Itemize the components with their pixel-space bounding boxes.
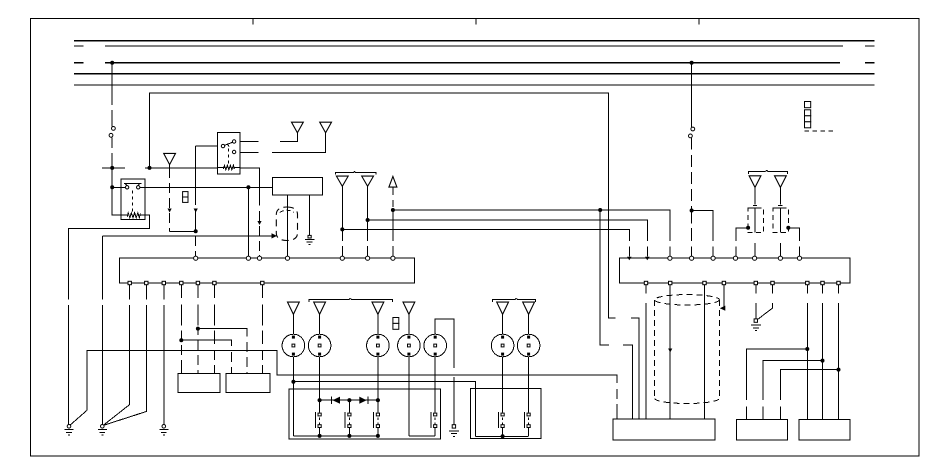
node junction (248.4,187.3) xyxy=(246,185,250,189)
node junction (149.5,168) xyxy=(148,166,152,170)
wire bus B1 xyxy=(74,40,875,42)
wire R1 output to ECU xyxy=(140,186,273,188)
wire bus B3 xyxy=(74,62,875,64)
wire bus B2 xyxy=(74,45,875,47)
wire R2 coil out right with drop to bar1 xyxy=(240,168,260,257)
wire drop to bar1 pin2 xyxy=(247,187,249,256)
pin J2-t3 xyxy=(668,256,672,260)
node (600.2,210) xyxy=(598,208,602,212)
wire relay2 left pin horizontal xyxy=(196,145,218,147)
switch SW7 xyxy=(524,412,530,436)
arrow marker on 670.2 xyxy=(668,349,672,353)
node (319.6,400.2) xyxy=(318,398,322,402)
wire T6 stem xyxy=(502,314,504,334)
pin J2-b4 xyxy=(722,281,725,284)
wire drop J2-b2 through cylinder xyxy=(669,285,671,419)
wire Td stem to bar1 xyxy=(341,186,343,256)
wire R1 contact1 lead xyxy=(112,186,125,188)
control unit U1 xyxy=(273,178,323,196)
node (367.6,220) xyxy=(366,218,370,222)
switch SW6 xyxy=(498,412,504,436)
switch SW3 xyxy=(374,400,380,436)
wire tap c1 to pin xyxy=(736,228,748,256)
wire drop J2-b6 slant to ground Gb xyxy=(758,285,773,320)
wire inner top rail xyxy=(150,93,640,419)
pin J2-b8 xyxy=(821,281,824,284)
pin J2-t5 xyxy=(711,256,715,260)
wire T2 stem xyxy=(319,314,321,334)
wire CB-R junction to pin xyxy=(692,211,714,257)
switch box SA xyxy=(289,389,440,439)
node joiner (195.7,231.3) xyxy=(194,229,198,233)
pin J2-t1 xyxy=(627,257,632,261)
node tap c2 (788.3,227.8) xyxy=(786,226,790,230)
wire tap to box R2 pin2 xyxy=(763,361,823,420)
brace over Tg Th xyxy=(749,170,788,173)
arrow marker on drop 195.7 xyxy=(194,209,198,213)
noise condenser dashed capsule xyxy=(276,207,297,241)
RIGHTBOTTOM xyxy=(613,285,850,440)
wire b4 branch to box L2 xyxy=(181,340,231,374)
pin J2-t9 xyxy=(797,256,801,260)
wire SA return rail xyxy=(293,435,435,437)
arrow marker on drop Ta xyxy=(168,209,172,213)
wire Tc stem xyxy=(272,133,326,153)
wire drop J1-b5 xyxy=(197,285,199,375)
switch box SB xyxy=(470,388,541,438)
lamp L4 xyxy=(398,334,421,357)
node (349.4,435.9) xyxy=(347,434,351,438)
brace over T6 T7 xyxy=(492,299,535,302)
pin J2-t8 xyxy=(778,256,782,260)
wire L5 bottom drop xyxy=(434,357,436,413)
connector triangle Tc xyxy=(320,122,332,133)
wire R1 left vertical feed xyxy=(112,168,121,215)
wire drop J1-b4 xyxy=(180,285,182,375)
ground G1 xyxy=(65,425,74,436)
pin J2-b9 xyxy=(837,281,840,284)
wire drop J1-b3 to G3 xyxy=(163,285,165,425)
box R2 xyxy=(737,419,788,440)
wire H210 to right bar xyxy=(393,210,670,256)
pin J1-t3 xyxy=(257,256,261,260)
wire bus B5 xyxy=(74,84,875,86)
connector triangle Th xyxy=(775,176,787,188)
node junction (112,168) xyxy=(110,166,114,170)
pin J2-t4 xyxy=(690,256,694,260)
node (377.9,400.2) xyxy=(376,398,380,402)
brace over Td Te xyxy=(336,172,376,175)
lamp L3 xyxy=(367,334,390,357)
pin J2-b3 xyxy=(703,281,706,284)
pin J2-b2 xyxy=(669,281,672,284)
switch SW2 xyxy=(345,400,351,436)
relay R1 (left relay) xyxy=(121,179,145,220)
node (807.3,349) xyxy=(805,347,809,351)
TOPLEFT xyxy=(69,63,833,426)
wire bus B4 xyxy=(74,73,875,75)
pin J2-t6 xyxy=(733,256,737,260)
wire A relay coil to ground G1 xyxy=(69,215,150,425)
RIGHTTOP xyxy=(736,170,800,256)
ground G3 xyxy=(159,425,168,436)
box L1 xyxy=(178,373,220,392)
diode D2 xyxy=(359,397,368,404)
circuit breaker CB-R (x=691.6) xyxy=(689,63,695,211)
wire tap c2 to pin xyxy=(788,228,799,256)
wire Th stem xyxy=(779,187,781,256)
wire Ta stem xyxy=(169,165,171,168)
wire Y1 ground run (G1 to box R1) xyxy=(71,350,617,424)
wire drop J2-b5 to ground Gb xyxy=(755,285,757,319)
connector triangle T4 xyxy=(403,302,415,314)
wire L1 bottom drop xyxy=(292,357,294,436)
wire L7 bottom drop xyxy=(528,357,530,413)
pin J2-t7 xyxy=(753,256,757,260)
wire drop J1-b7 xyxy=(261,285,263,375)
pin J2-t2 xyxy=(645,257,650,261)
wire R2 right pin1 xyxy=(240,141,259,143)
wire coil feed line y=168 xyxy=(102,167,217,169)
wire drop J2-b7 to box R3 xyxy=(806,285,808,420)
wire L6 bottom drop xyxy=(502,357,504,413)
lamp L5 xyxy=(424,334,447,357)
connector triangle T2 xyxy=(314,302,326,314)
connector triangle Tg xyxy=(749,176,761,188)
LAMPS xyxy=(282,299,540,437)
wire tap to box R2 pin1 xyxy=(746,349,807,419)
pin J2-b5 xyxy=(754,281,757,284)
pin J1-t5 xyxy=(340,256,344,260)
lamp L2 xyxy=(308,334,331,357)
inline connector dashed box c1 xyxy=(748,208,763,233)
wire drop J1-b6 xyxy=(213,285,215,375)
pin J1-b4 xyxy=(180,281,183,284)
wire drop J1-b1 to G2 xyxy=(104,285,130,425)
wire R2 right pin2 xyxy=(240,151,259,153)
node (822.5,360.6) xyxy=(821,359,825,363)
arrow into cylinder xyxy=(720,306,726,311)
wire T1 stem xyxy=(292,314,294,334)
connector pair squares (x=396) xyxy=(393,318,399,330)
connector triangle T3 xyxy=(372,302,384,314)
node junction (691.6,210.5) xyxy=(690,209,694,213)
wire L5 top to ground Gr xyxy=(435,319,454,425)
node tap on B3 right xyxy=(690,61,694,65)
lamp L6 xyxy=(491,334,514,357)
node (293.4,381.7) xyxy=(291,380,295,384)
connector triangle Td xyxy=(336,176,348,186)
SWITCHBOXES xyxy=(289,357,541,439)
pin J1-b3 xyxy=(162,281,165,284)
wire U1 left pin drop xyxy=(287,195,289,256)
ground Gr xyxy=(449,425,459,437)
wire Tf dashed stem xyxy=(392,187,394,256)
wire from node 600 down to box R1 xyxy=(600,210,632,419)
circuit breaker CB-L (x=112) xyxy=(109,63,115,168)
connector pair squares (x=183) xyxy=(183,192,188,203)
pin J1-b6 xyxy=(213,281,216,284)
wire drop J2-b8 to box R3 xyxy=(822,285,824,420)
node tap on B3 left xyxy=(110,61,114,65)
splice marks Th xyxy=(778,205,782,208)
pin J2-b7 xyxy=(806,281,809,284)
wire Te stem to bar1 xyxy=(367,186,369,256)
wire Y2 to box SB xyxy=(293,382,475,437)
ground Gm under U1 xyxy=(305,235,315,244)
wire U1 right pin drop xyxy=(309,195,311,235)
wire drop J2-b3 through cylinder xyxy=(704,285,706,419)
wire drop J1-b2 to G2 xyxy=(105,285,147,425)
node (392.9,210) xyxy=(391,208,395,212)
connector triangle T1 xyxy=(288,302,300,314)
wire B to condenser with arrow xyxy=(102,235,271,237)
node (181.3,340.2) xyxy=(179,338,183,342)
wire L3 bottom drop xyxy=(377,357,379,400)
lamp L1 xyxy=(282,334,305,357)
wire L4 bottom drop xyxy=(408,357,410,436)
wire tap to box R2 pin3 xyxy=(781,370,839,420)
wire T3 stem xyxy=(377,314,379,334)
BOTTOMLEFT xyxy=(65,236,617,435)
arrow into condenser xyxy=(272,233,278,238)
node (342.3,229.4) xyxy=(340,227,344,231)
fuel unit dashed cylinder xyxy=(655,295,720,404)
connector triangle Tf (up) xyxy=(389,176,397,187)
box R1 xyxy=(613,419,715,440)
node tap c1 (748.1,227.8) xyxy=(746,226,750,230)
pin J1-t2 xyxy=(246,256,250,260)
connector stack C401 (top right) xyxy=(805,102,834,131)
node (377.9,435.9) xyxy=(376,434,380,438)
pin J1-b7 xyxy=(261,281,264,284)
inline connector dashed box c2 xyxy=(773,208,788,233)
connector triangle Ta (x=169.6) xyxy=(164,153,176,164)
node (197.9,328.6) xyxy=(196,327,200,331)
wire Tg stem xyxy=(754,187,756,256)
wire L2 bottom drop xyxy=(319,357,321,400)
box R3 xyxy=(799,419,850,440)
BAR1 xyxy=(120,256,415,285)
pin J1-t4 xyxy=(285,256,289,260)
pin J2-b1 xyxy=(644,281,647,284)
wire H229 to right bar xyxy=(342,229,629,256)
arrow marker on drop 259.5 xyxy=(257,221,261,225)
node junction (112.2,187.3) xyxy=(110,185,114,189)
switch SW4 xyxy=(431,412,437,436)
MIDLEFT xyxy=(102,172,713,419)
wire H220 to right bar xyxy=(368,220,648,256)
connector triangle Tb xyxy=(292,122,304,133)
connector triangle Te xyxy=(362,176,374,186)
connector triangle T7 xyxy=(523,302,535,314)
ground G2 xyxy=(98,425,107,436)
pin J1-b5 xyxy=(196,281,199,284)
pin J1-b2 xyxy=(145,281,148,284)
node (349.4,400.2) xyxy=(347,398,351,402)
node (838.5,368.4) xyxy=(837,368,841,372)
wire relay2 left pin drop (x=195.7) xyxy=(195,146,197,256)
wire b5 branch to box L2 xyxy=(198,329,247,375)
box L2 xyxy=(226,373,270,392)
pin J1-t6 xyxy=(366,256,370,260)
lamp L7 xyxy=(517,334,540,357)
ground Gb xyxy=(751,319,761,331)
wire T4 stem xyxy=(408,314,410,334)
pin J2-b6 xyxy=(771,281,774,284)
connector bar J2 xyxy=(620,258,851,283)
wire G2 feed from wire B xyxy=(101,236,103,425)
wire drop J2-b9 to box R3 xyxy=(838,285,840,420)
brace over T2 T3 xyxy=(309,299,392,302)
splice marks Tg xyxy=(753,205,757,208)
switch SW1 xyxy=(315,400,321,436)
node (502.6,436.3) xyxy=(501,434,505,438)
wire drop J2-b4 arrow into cylinder xyxy=(722,285,724,309)
pin J1-t1 xyxy=(194,256,198,260)
BUSES xyxy=(74,41,875,85)
wire dashed drop from Ta to joiner xyxy=(170,168,196,231)
node (319.6,435.9) xyxy=(318,434,322,438)
pin J1-t7 xyxy=(391,256,395,260)
wire Tb stem xyxy=(280,133,297,142)
relay R2 (upper relay) xyxy=(218,132,240,174)
BAR2 xyxy=(620,256,851,285)
connector triangle T6 xyxy=(497,302,509,314)
pin J1-b1 xyxy=(128,281,131,284)
connector bar J1 xyxy=(120,258,415,283)
wire SB return rail xyxy=(476,435,529,437)
wire T7 stem xyxy=(528,314,530,334)
wire diode rail xyxy=(320,399,378,401)
diode D1 xyxy=(331,397,340,404)
wire drop J2-b1 to box R1 xyxy=(645,285,647,419)
